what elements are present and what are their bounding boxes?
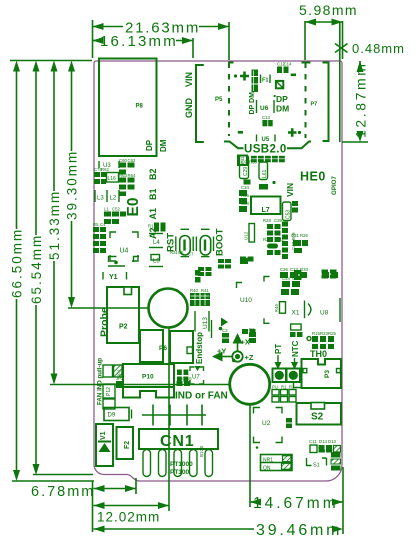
- capacitor pair x222: [222, 333, 229, 343]
- svg-text:A1: A1: [148, 208, 158, 220]
- CN1 pin 1: [143, 450, 151, 477]
- label PT with arrow: [274, 344, 283, 370]
- corner mark U10 left: [237, 283, 243, 289]
- inductor L7: [251, 197, 281, 215]
- extension line left edge above board: [92, 20, 94, 58]
- extension line y384 heater center: [50, 384, 230, 386]
- svg-text:L7: L7: [262, 207, 270, 214]
- capacitor C43 pair: [286, 418, 292, 428]
- connector P5 bracket: [196, 65, 223, 142]
- svg-text:P5: P5: [215, 97, 223, 103]
- extension line y475 tab bottom: [33, 474, 93, 476]
- svg-text:B1C0: B1C0: [199, 445, 204, 457]
- inductor L3 L2: [95, 190, 119, 202]
- svg-text:DP: DP: [276, 94, 288, 104]
- connector P2: [107, 287, 139, 343]
- svg-text:C44: C44: [282, 276, 290, 281]
- svg-text:R33: R33: [300, 267, 308, 272]
- capacitor cluster C60: [119, 163, 135, 197]
- svg-text:L3: L3: [97, 196, 104, 202]
- svg-text:66.50mm: 66.50mm: [10, 228, 25, 298]
- svg-text:C3: C3: [222, 328, 228, 333]
- component row y255: [151, 255, 160, 261]
- IC U13: [195, 311, 209, 332]
- connector P8: [99, 59, 157, 157]
- svg-text:B16: B16: [184, 376, 192, 381]
- svg-text:D13: D13: [328, 439, 336, 444]
- dimension 0.48mm: [335, 41, 405, 56]
- corner mark U10: [264, 277, 270, 282]
- capacitor C40: [291, 324, 302, 330]
- svg-text:C23: C23: [290, 267, 298, 272]
- svg-text:+Z: +Z: [245, 353, 254, 362]
- right component strip: [282, 222, 296, 260]
- svg-text:S2: S2: [311, 412, 324, 423]
- svg-text:6.78mm: 6.78mm: [31, 484, 95, 500]
- mid component cluster: [267, 224, 281, 255]
- svg-text:USB2.0: USB2.0: [244, 144, 287, 156]
- IC U4: [110, 232, 138, 261]
- svg-text:U6: U6: [260, 105, 269, 112]
- svg-text:P7: P7: [311, 102, 318, 108]
- heater pad circle: [230, 359, 270, 405]
- extension line x342.5: [342, 21, 344, 59]
- svg-text:Y1: Y1: [109, 274, 118, 281]
- svg-text:DM: DM: [159, 139, 168, 152]
- corner mark left: [109, 257, 117, 263]
- svg-text:R1: R1: [281, 385, 287, 390]
- extension line left edge below board: [92, 481, 94, 532]
- svg-text:C13: C13: [262, 115, 270, 120]
- svg-text:R35: R35: [241, 193, 249, 198]
- board outline: [94, 61, 342, 481]
- svg-text:R64: R64: [128, 173, 136, 178]
- svg-text:65.54mm: 65.54mm: [29, 234, 44, 304]
- svg-text:PT100: PT100: [170, 469, 190, 476]
- svg-text:P12: P12: [106, 387, 112, 396]
- CN1 pin 2: [159, 450, 167, 477]
- IC U2 corners: [254, 408, 283, 449]
- inductor L16: [107, 173, 119, 183]
- component 2x2 right of P10: [177, 370, 188, 383]
- svg-text:U10: U10: [240, 297, 252, 304]
- usb plus mark top: [234, 72, 249, 81]
- svg-text:NTC: NTC: [291, 340, 300, 357]
- svg-text:C38: C38: [241, 201, 249, 206]
- svg-text:C14: C14: [284, 62, 292, 67]
- IC U5: [257, 135, 276, 144]
- label PT1000 PT100: [170, 461, 193, 476]
- usb minus mark top: [291, 74, 296, 77]
- svg-text:R25: R25: [328, 331, 336, 336]
- svg-text:51.33mm: 51.33mm: [47, 190, 62, 260]
- svg-text:P8: P8: [136, 104, 144, 110]
- resistor C28: [259, 181, 276, 190]
- capacitor pair left low: [242, 329, 256, 334]
- svg-text:CN1: CN1: [160, 433, 194, 450]
- crystal X1: [292, 301, 311, 319]
- svg-text:5.98mm: 5.98mm: [299, 2, 358, 18]
- connector CN1: [139, 429, 218, 457]
- diode D9: [104, 408, 132, 421]
- capacitor C31 R26: [293, 240, 308, 253]
- dimension 21.63mm: [93, 20, 230, 37]
- svg-text:C5: C5: [178, 250, 184, 255]
- svg-text:C62: C62: [128, 158, 136, 163]
- svg-text:GND: GND: [184, 98, 194, 119]
- svg-text:ON: ON: [263, 466, 271, 472]
- svg-text:R26: R26: [300, 233, 308, 238]
- usb capacitor mid: [262, 120, 272, 126]
- label DP bold: [274, 94, 289, 104]
- svg-text:B1: B1: [148, 188, 158, 200]
- dimension extension line top: [10, 60, 92, 62]
- svg-text:PT: PT: [274, 344, 283, 354]
- extension line y308 probe center: [68, 307, 148, 309]
- svg-text:X1: X1: [292, 310, 300, 317]
- svg-text:V1: V1: [100, 431, 107, 440]
- extension line x169 probe center vertical: [168, 329, 170, 512]
- svg-text:VIN: VIN: [184, 72, 194, 87]
- svg-text:R2: R2: [289, 385, 295, 390]
- svg-text:R28: R28: [263, 218, 271, 223]
- wire x211: [211, 320, 213, 338]
- svg-text:Probe: Probe: [99, 307, 111, 337]
- extension line x343 right edge vertical: [342, 467, 344, 534]
- capacitor cluster left top: [94, 172, 106, 184]
- svg-text:U12: U12: [244, 231, 249, 240]
- svg-text:+Y: +Y: [217, 347, 226, 356]
- jumper block PT selection: [261, 455, 293, 472]
- connector P12: [103, 381, 122, 398]
- svg-text:R45: R45: [274, 304, 279, 312]
- CN1 pin 3: [174, 450, 182, 477]
- corner mark lower: [264, 318, 270, 323]
- svg-text:Endstop: Endstop: [195, 332, 204, 364]
- dimension 39.46mm: [94, 522, 344, 539]
- dimension 12.87mm: [342, 61, 369, 142]
- svg-text:C4: C4: [100, 222, 106, 227]
- usb minus mark bottom: [238, 131, 243, 134]
- svg-text:R40: R40: [190, 288, 198, 293]
- svg-text:F2: F2: [124, 441, 131, 449]
- svg-text:IND or FAN: IND or FAN: [175, 391, 228, 402]
- svg-text:DP DM: DP DM: [249, 92, 256, 115]
- svg-text:NR1: NR1: [263, 458, 273, 464]
- switch S2: [297, 403, 342, 425]
- dimension 65.54mm: [29, 61, 44, 476]
- resistor R24 C24 pair: [154, 223, 166, 232]
- svg-text:U5: U5: [262, 137, 270, 143]
- svg-text:L4: L4: [153, 240, 160, 246]
- usb capacitor pair top: [277, 67, 289, 74]
- svg-text:C9: C9: [241, 160, 247, 165]
- connector P6: [159, 331, 193, 363]
- svg-text:B2: B2: [148, 168, 158, 180]
- svg-text:39.46mm: 39.46mm: [256, 522, 342, 539]
- svg-text:U7: U7: [192, 375, 200, 381]
- pad rows below thermistor pads: [272, 390, 296, 403]
- label NTC with arrow: [291, 340, 300, 369]
- svg-text:C41: C41: [276, 237, 284, 242]
- TH0 component cluster: [307, 336, 334, 349]
- capacitor pair x249: [249, 332, 256, 343]
- cluster y272: [280, 272, 338, 295]
- svg-text:12.02mm: 12.02mm: [97, 510, 160, 525]
- bottom right component cluster: [307, 445, 341, 471]
- svg-text:C34: C34: [241, 185, 249, 190]
- svg-text:C53: C53: [286, 210, 292, 219]
- connector block below P2: [140, 330, 163, 362]
- svg-text:16.13mm: 16.13mm: [100, 33, 178, 50]
- svg-text:D5: D5: [328, 449, 334, 454]
- svg-text:P10: P10: [142, 374, 154, 381]
- svg-text:F1: F1: [262, 78, 268, 84]
- svg-text:R13: R13: [148, 224, 156, 229]
- extension line x305 usb right: [304, 21, 306, 60]
- diode V1: [96, 424, 113, 466]
- svg-text:C36: C36: [280, 267, 288, 272]
- svg-text:VIN: VIN: [285, 183, 295, 197]
- component row L1: [104, 212, 126, 225]
- svg-text:14.67mm: 14.67mm: [253, 495, 339, 512]
- CN1 pin 5: [205, 450, 213, 477]
- svg-text:D14: D14: [319, 439, 327, 444]
- inductor L4: [149, 234, 163, 248]
- thermistor pad PT: [273, 369, 287, 383]
- usb component strip: [252, 70, 259, 93]
- extension line x339.8 copper edge: [339, 22, 341, 142]
- label Endstop: [195, 332, 205, 371]
- IC U7 dashed: [190, 367, 204, 384]
- svg-text:U8: U8: [320, 310, 329, 317]
- fuse F2: [117, 427, 134, 459]
- svg-text:E0: E0: [125, 198, 142, 217]
- capacitor C53: [283, 201, 299, 221]
- dimension 14.67mm: [250, 495, 343, 512]
- svg-text:C29: C29: [243, 167, 249, 176]
- tiny reference labels texture: [93, 62, 336, 454]
- extension line x250 heater center vertical: [249, 405, 251, 507]
- svg-text:39.30mm: 39.30mm: [65, 150, 80, 220]
- fuse F1: [261, 75, 284, 89]
- thermistor pad NTC: [287, 369, 301, 383]
- capacitor C29: [240, 156, 251, 185]
- resistor pair above IND: [177, 381, 191, 386]
- inductor L5: [149, 259, 163, 267]
- svg-text:TH0: TH0: [310, 349, 327, 359]
- corner mark right: [134, 257, 140, 263]
- left component column: [239, 190, 255, 262]
- svg-text:L61: L61: [262, 169, 268, 178]
- crystal Y1: [103, 272, 127, 281]
- axis +X arrow: [233, 333, 250, 351]
- svg-text:R41: R41: [201, 288, 209, 293]
- extension line x136 tab step: [135, 478, 137, 494]
- jumper box left: [103, 365, 113, 377]
- probe pad circle: [149, 289, 188, 328]
- svg-text:L2: L2: [110, 196, 117, 202]
- svg-text:C7: C7: [188, 252, 194, 257]
- CN1 pin 4: [190, 450, 198, 477]
- dimension 12.02mm: [94, 502, 170, 525]
- svg-text:PT1000: PT1000: [170, 461, 193, 468]
- dimension 51.33mm: [47, 61, 62, 385]
- svg-text:12.87mm: 12.87mm: [353, 61, 369, 138]
- resistor R5 vertical: [274, 302, 286, 314]
- jumper box lower: [103, 399, 115, 409]
- dimension 5.98mm: [299, 2, 358, 26]
- dense block U11: [190, 293, 210, 306]
- svg-text:L16: L16: [108, 176, 117, 182]
- svg-text:C52: C52: [112, 207, 120, 212]
- dimension 66.50mm: [10, 61, 25, 482]
- jumper JP1: [114, 365, 123, 377]
- svg-text:PU: PU: [272, 385, 278, 390]
- svg-text:R30: R30: [249, 160, 257, 165]
- step outline pads to P3: [294, 382, 302, 388]
- svg-text:JP2: JP2: [116, 376, 124, 381]
- svg-text:C45: C45: [292, 276, 300, 281]
- inductor L61: [259, 162, 268, 180]
- extension line x193: [192, 38, 194, 58]
- capacitor E4: [240, 258, 248, 264]
- test point dot: [108, 261, 125, 266]
- extension line x229 usb left: [228, 22, 230, 60]
- svg-text:GPIO7: GPIO7: [331, 176, 338, 195]
- connector P7 bracket: [311, 63, 329, 142]
- svg-text:L1: L1: [104, 207, 109, 212]
- capacitor cluster left mid: [93, 227, 106, 253]
- svg-text:DM: DM: [276, 104, 289, 114]
- svg-text:R5: R5: [93, 222, 99, 227]
- svg-text:C31: C31: [291, 233, 299, 238]
- capacitor pair below X1: [290, 332, 303, 337]
- IC U8: [320, 298, 340, 322]
- polarity mark: [219, 318, 228, 331]
- svg-text:HE0: HE0: [300, 170, 326, 184]
- jumper RST stadium: [176, 229, 190, 256]
- svg-text:D9: D9: [108, 413, 116, 419]
- svg-text:BOOT: BOOT: [215, 228, 226, 256]
- svg-text:U13: U13: [202, 317, 209, 329]
- resistor pair R7: [195, 270, 201, 283]
- svg-text:D2: D2: [249, 327, 255, 332]
- svg-text:U4: U4: [120, 248, 129, 255]
- axes origin marker: [232, 351, 242, 361]
- IC U3: [99, 161, 119, 169]
- svg-text:0.48mm: 0.48mm: [352, 41, 405, 56]
- svg-text:+X: +X: [241, 338, 250, 347]
- dimension 39.30mm: [65, 61, 80, 309]
- dimension 16.13mm: [93, 33, 194, 50]
- svg-text:DP: DP: [145, 139, 154, 151]
- heater wire crosses: [142, 405, 206, 426]
- svg-text:R29: R29: [263, 237, 271, 242]
- svg-text:R62: R62: [101, 167, 109, 172]
- svg-text:S1: S1: [313, 463, 320, 469]
- svg-text:D4: D4: [320, 449, 326, 454]
- svg-text:C11: C11: [309, 439, 317, 444]
- svg-text:U2: U2: [262, 420, 271, 427]
- usb plus mark bottom: [288, 128, 301, 137]
- dimension 6.78mm: [31, 484, 136, 500]
- connector P11 small box: [238, 156, 247, 166]
- capacitor pair right lower: [294, 270, 337, 281]
- axis +Y arrow: [212, 347, 232, 362]
- svg-text:P6: P6: [159, 345, 167, 352]
- USB module outline dashed: [224, 63, 311, 149]
- connector P3: [302, 359, 342, 388]
- usb shield pads: [251, 156, 285, 163]
- svg-text:P3: P3: [324, 370, 331, 378]
- svg-text:R63: R63: [119, 173, 127, 178]
- capacitor 2x2 below BOOT: [198, 259, 231, 276]
- svg-text:P2: P2: [119, 324, 128, 331]
- svg-text:C60: C60: [119, 158, 127, 163]
- IC U6: [257, 100, 275, 113]
- connector P10: [123, 364, 174, 398]
- jumper BOOT stadium: [193, 229, 213, 256]
- extension line y481 board bottom: [12, 480, 94, 482]
- svg-text:C39: C39: [274, 218, 282, 223]
